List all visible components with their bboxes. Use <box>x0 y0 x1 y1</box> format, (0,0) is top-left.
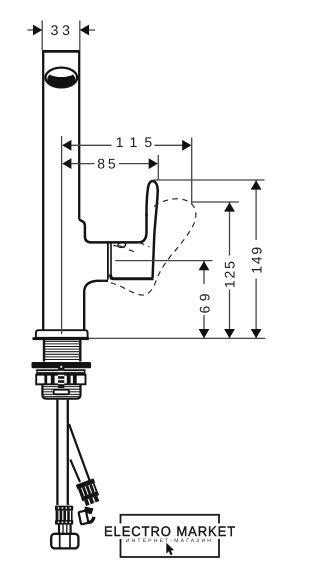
svg-text:ИНТЕРНЕТ-МАГАЗИН: ИНТЕРНЕТ-МАГАЗИН <box>126 538 213 544</box>
svg-text:69: 69 <box>196 289 212 314</box>
svg-text:115: 115 <box>116 134 159 150</box>
svg-text:ELECTRO MARKET: ELECTRO MARKET <box>104 524 236 539</box>
svg-text:125: 125 <box>222 259 238 288</box>
svg-text:33: 33 <box>51 22 74 38</box>
svg-text:149: 149 <box>249 245 265 274</box>
svg-text:85: 85 <box>97 156 118 172</box>
